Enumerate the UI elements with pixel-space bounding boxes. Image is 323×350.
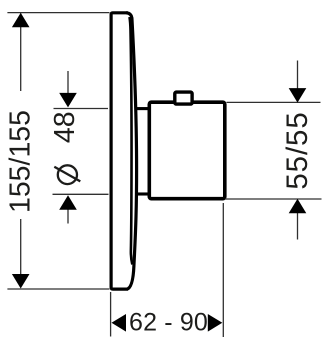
label 155/155 (rotated) xyxy=(5,110,37,213)
bottom extension line (plate bottom) xyxy=(7,288,109,290)
stub / valve neck between plate and handle xyxy=(135,109,150,194)
55/55 lower arrow stem xyxy=(297,212,299,240)
55/55 top arrowhead (down) xyxy=(289,88,307,103)
155/155 dimension line upper segment xyxy=(20,14,22,92)
155/155 bottom arrowhead (down) xyxy=(12,274,30,289)
55/55 upper extension line xyxy=(227,101,321,103)
wall plate (escutcheon, side view) xyxy=(111,13,136,289)
55/55 upper arrow stem xyxy=(297,61,299,91)
62-90 right extension line xyxy=(222,203,224,337)
label 48 (rotated) xyxy=(49,111,81,143)
Ø48 lower arrow stem xyxy=(67,208,69,224)
top extension line (plate top) xyxy=(7,12,109,14)
Ø48 lower extension line xyxy=(53,193,109,195)
svg-text:155/155: 155/155 xyxy=(5,110,37,213)
svg-text:48: 48 xyxy=(49,111,81,143)
handle cylinder xyxy=(149,102,225,199)
62-90 left arrowhead xyxy=(112,314,127,332)
Ø48 top arrowhead (down) xyxy=(59,93,77,108)
55/55 lower extension line xyxy=(225,198,322,200)
62-90 right arrowhead xyxy=(208,314,223,332)
diameter symbol Ø xyxy=(54,165,80,184)
label 62 - 90 xyxy=(129,309,208,337)
Ø48 upper arrow stem xyxy=(67,71,69,95)
svg-text:55/55: 55/55 xyxy=(281,111,314,189)
62-90 left extension line xyxy=(110,292,112,337)
svg-text:62 - 90: 62 - 90 xyxy=(129,309,208,337)
Ø48 upper extension line xyxy=(54,108,109,110)
label 55/55 (rotated) xyxy=(281,111,314,189)
155/155 dimension line lower segment xyxy=(20,219,22,275)
55/55 bottom arrowhead (up) xyxy=(289,199,307,214)
155/155 top arrowhead (up) xyxy=(12,13,30,28)
knob on top of cylinder xyxy=(175,92,192,104)
Ø48 bottom arrowhead (up) xyxy=(59,195,77,210)
